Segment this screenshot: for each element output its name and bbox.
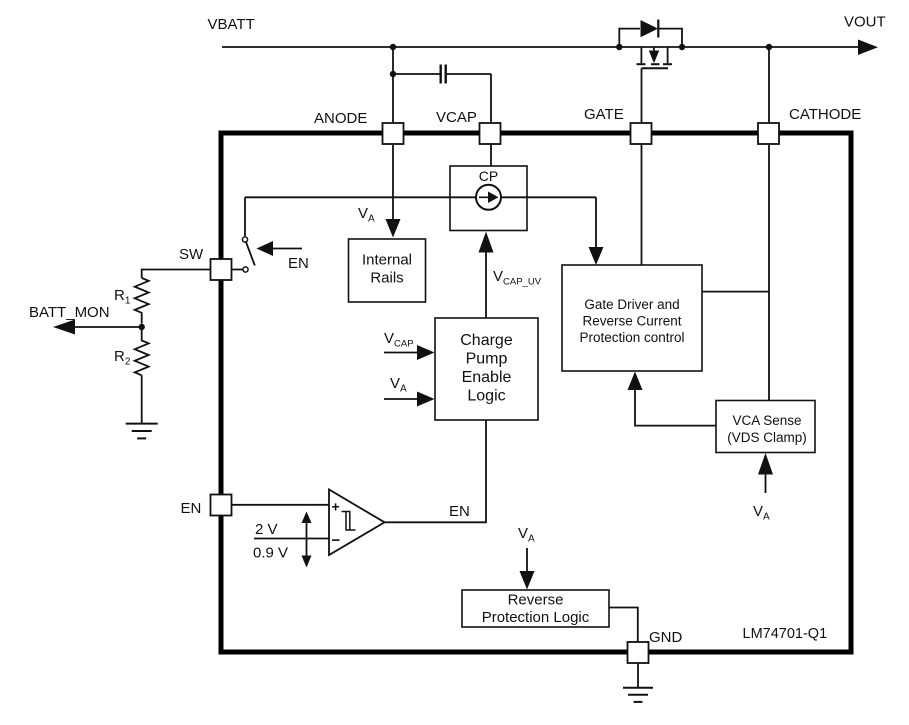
wire EN pin to comparator — [232, 504, 330, 506]
mosfet source stub — [667, 47, 669, 63]
svg-text:VBATT: VBATT — [208, 16, 255, 33]
capacitor C (VCAP bootstrap) — [440, 65, 442, 84]
mosfet gate plate — [642, 67, 669, 69]
svg-text:VOUT: VOUT — [844, 14, 886, 31]
svg-text:BATT_MON: BATT_MON — [29, 304, 110, 321]
transistor Q1 external MOSFET with body diode — [616, 20, 685, 124]
svg-text:(VDS Clamp): (VDS Clamp) — [727, 430, 807, 445]
svg-text:CATHODE: CATHODE — [789, 106, 861, 123]
wire top rail VBATT to VOUT — [222, 46, 862, 48]
svg-text:EN: EN — [288, 255, 309, 272]
node divider tap — [139, 324, 145, 330]
arrow VA into reverse protection logic — [526, 548, 528, 572]
hysteresis glyph — [342, 512, 356, 531]
wire GND pin to ground — [637, 663, 639, 688]
wire cathode down to VCA sense — [768, 144, 770, 401]
svg-text:GATE: GATE — [584, 106, 624, 123]
wire VCAP pin to CP block — [490, 144, 492, 166]
svg-text:EN: EN — [449, 503, 470, 520]
arrow VA into logic — [384, 398, 418, 400]
resistor R2 — [135, 327, 149, 375]
resistor R1 — [135, 278, 149, 324]
wire diode loop — [619, 29, 640, 47]
chip boundary LM74701-Q1 — [221, 133, 851, 652]
wire VCAP_UV CP enable to CP — [485, 252, 487, 318]
wire switch net through CP — [245, 196, 596, 198]
wire down to VCAP pin — [490, 74, 492, 124]
mosfet drain stub — [640, 47, 642, 63]
wire BATT_MON — [75, 326, 142, 328]
svg-text:Reverse: Reverse — [508, 592, 564, 609]
wire GATE pin into gate driver — [641, 144, 643, 265]
wire CP to gate driver — [595, 197, 597, 248]
pin GATE — [631, 123, 652, 144]
svg-text:VCA Sense: VCA Sense — [732, 413, 801, 428]
pin CATHODE — [758, 123, 779, 144]
svg-text:Protection control: Protection control — [579, 330, 684, 345]
node mosfet right junction — [679, 44, 685, 50]
svg-text:Rails: Rails — [370, 270, 403, 287]
wire R2 to ground — [141, 375, 143, 423]
svg-text:Internal: Internal — [362, 252, 412, 269]
node anode junction on rail — [390, 44, 396, 50]
op-amp EN comparator — [329, 490, 385, 556]
svg-text:LM74701-Q1: LM74701-Q1 — [743, 626, 828, 642]
arrow VA into VCA sense — [765, 474, 767, 493]
svg-text:Logic: Logic — [467, 388, 505, 405]
pin VCAP — [480, 123, 501, 144]
mosfet body arrow — [653, 47, 655, 51]
wire rail down to CATHODE pin — [768, 47, 770, 123]
svg-text:2 V: 2 V — [255, 521, 278, 538]
svg-text:+: + — [332, 499, 340, 515]
svg-text:Charge: Charge — [460, 332, 513, 349]
wire VCA sense to gate driver — [635, 389, 716, 426]
VOUT arrowhead — [858, 40, 878, 56]
svg-text:−: − — [332, 532, 341, 549]
arrow EN to switch — [257, 241, 274, 256]
wire SW pin to divider — [142, 270, 211, 279]
svg-text:EN: EN — [181, 500, 202, 517]
hysteresis range arrows — [302, 512, 312, 568]
svg-text:Pump: Pump — [466, 351, 508, 368]
svg-text:GND: GND — [649, 629, 683, 646]
block VCA sense — [716, 401, 815, 453]
wire capacitor branch right — [447, 73, 491, 75]
wire capacitor branch left — [393, 73, 440, 75]
node capacitor tap — [390, 71, 396, 77]
svg-text:0.9 V: 0.9 V — [253, 545, 288, 562]
wire EN switch net down — [244, 197, 246, 236]
diode D body — [641, 20, 659, 37]
block charge pump enable logic — [435, 318, 538, 420]
mosfet contact bars — [637, 63, 646, 65]
node cathode junction on rail — [766, 44, 772, 50]
wire gate driver to cathode net — [702, 291, 769, 293]
switch SW internal — [242, 237, 247, 242]
svg-text:Reverse Current: Reverse Current — [582, 314, 681, 329]
block gate driver — [562, 265, 702, 371]
svg-text:Gate Driver and: Gate Driver and — [584, 297, 679, 312]
svg-text:VCAP: VCAP — [436, 109, 477, 126]
wire threshold input — [254, 538, 329, 540]
wire RPL to GND pin — [609, 608, 638, 643]
block internal rails — [349, 239, 426, 302]
pin SW — [211, 259, 232, 280]
svg-text:Enable: Enable — [462, 369, 512, 386]
svg-text:CP: CP — [479, 168, 498, 184]
svg-text:Protection Logic: Protection Logic — [482, 609, 590, 626]
ground GND — [623, 688, 653, 702]
wire gate down to GATE pin — [641, 68, 643, 123]
wire VBATT rail down to ANODE pin — [392, 47, 394, 123]
node mosfet left junction — [616, 44, 622, 50]
wire ANODE pin to internal rails arrow — [392, 144, 394, 220]
pin GND — [628, 642, 649, 663]
svg-text:ANODE: ANODE — [314, 110, 367, 127]
pin EN — [211, 495, 232, 516]
current source symbol in CP — [476, 185, 501, 210]
wire comparator output EN — [385, 420, 487, 522]
ground divider — [126, 424, 158, 439]
svg-text:SW: SW — [179, 246, 204, 263]
block CP charge pump — [450, 166, 527, 231]
block reverse protection logic — [462, 590, 609, 627]
pin ANODE — [383, 123, 404, 144]
arrow VCAP into logic — [384, 352, 418, 354]
